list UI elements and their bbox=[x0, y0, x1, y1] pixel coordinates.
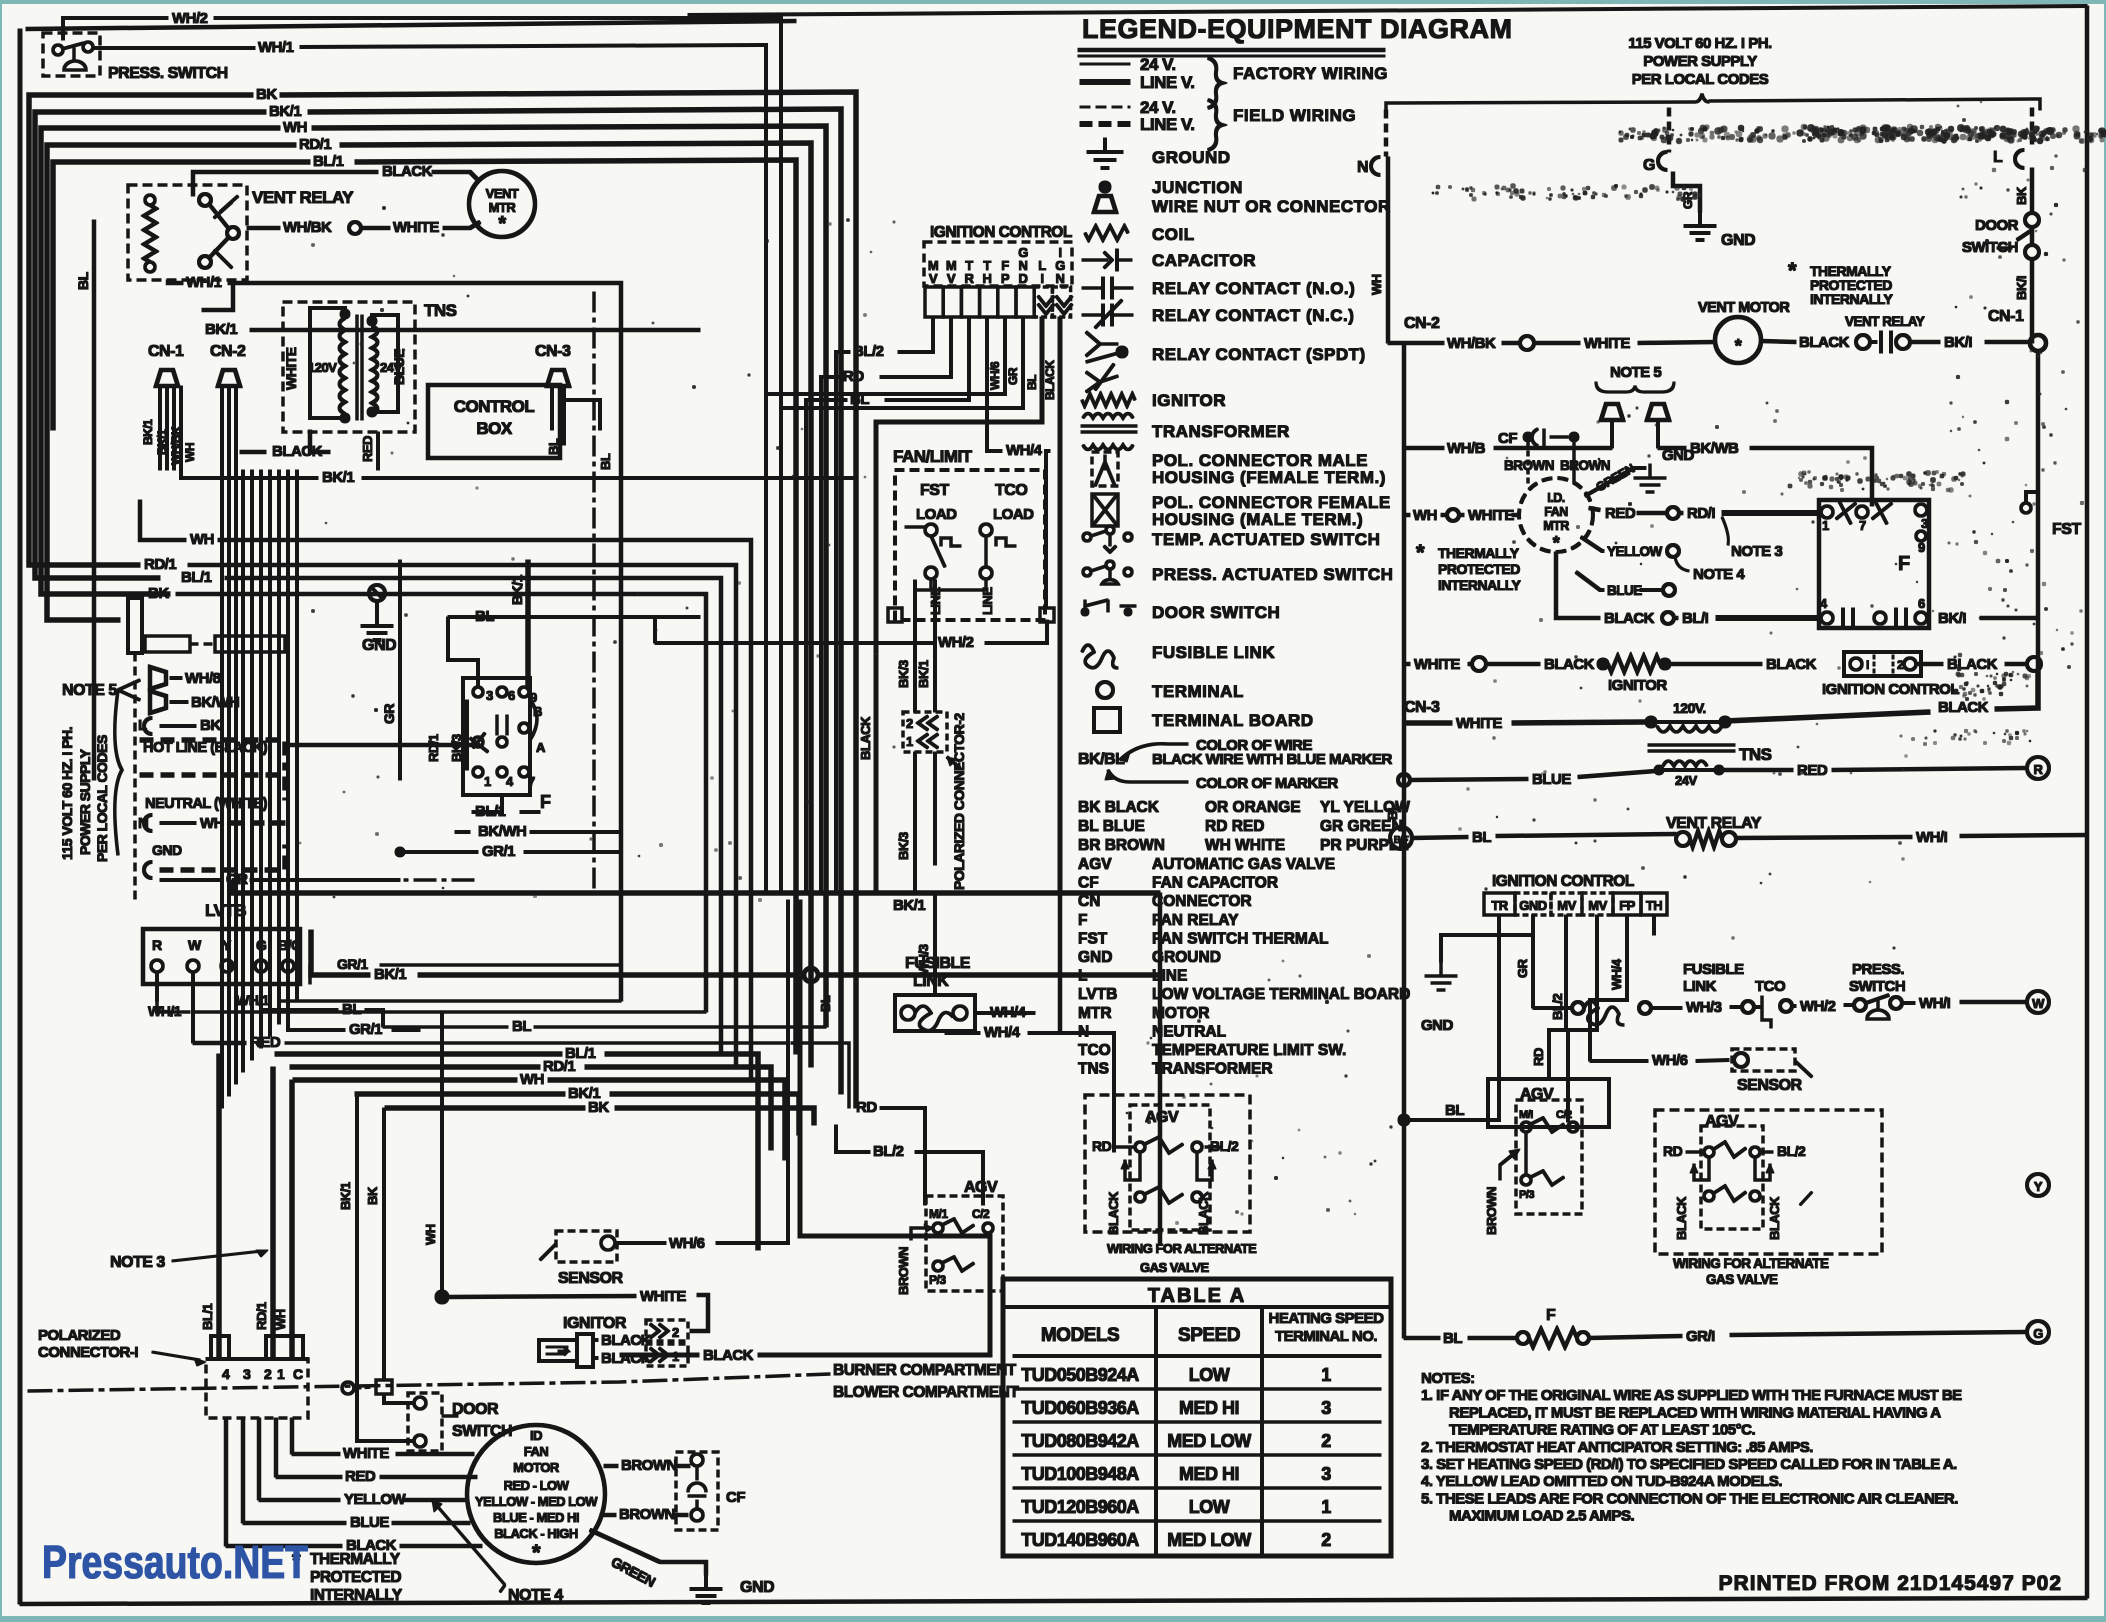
svg-text:BK/3: BK/3 bbox=[449, 734, 464, 762]
svg-text:POWER SUPPLY: POWER SUPPLY bbox=[77, 748, 93, 855]
fusible link box left bbox=[895, 995, 975, 1031]
svg-text:BR BROWN: BR BROWN bbox=[1078, 837, 1165, 854]
svg-text:FIELD WIRING: FIELD WIRING bbox=[1233, 106, 1356, 125]
teal border top bbox=[0, 0, 2106, 4]
wire mid bus vertical 2 bbox=[228, 470, 231, 1096]
wire WH/B row448 bbox=[1404, 446, 1444, 450]
wire WH/6 from sensor bbox=[615, 1242, 666, 1245]
svg-text:BK/1: BK/1 bbox=[509, 574, 525, 605]
legend 24V field dashed bbox=[1080, 106, 1130, 108]
svg-text:WH WHITE: WH WHITE bbox=[1205, 837, 1285, 854]
wire BK/1 below connector2 bbox=[934, 752, 937, 865]
svg-text:WH/3: WH/3 bbox=[916, 944, 931, 975]
wire RED to fan motor bbox=[276, 1475, 342, 1479]
svg-text:WH/1: WH/1 bbox=[236, 992, 270, 1008]
svg-text:GR/I: GR/I bbox=[1686, 1328, 1715, 1345]
gnd screw terminal bbox=[369, 585, 385, 601]
alt gas valve outer dashed box center bbox=[1085, 1095, 1250, 1232]
wire RED from TNS bbox=[377, 432, 380, 470]
legend ignitor symbol bbox=[1082, 394, 1135, 406]
wire vertical 1162 b bbox=[1161, 974, 1163, 976]
CN-3 wires down bbox=[551, 386, 554, 430]
svg-text:RD: RD bbox=[1531, 1048, 1546, 1066]
svg-text:COIL: COIL bbox=[1152, 225, 1195, 244]
LVTB terminal board box bbox=[143, 929, 300, 984]
svg-text:CF: CF bbox=[1078, 875, 1099, 892]
svg-text:LOW VOLTAGE TERMINAL BOARD: LOW VOLTAGE TERMINAL BOARD bbox=[1152, 986, 1410, 1003]
svg-text:P: P bbox=[1001, 271, 1010, 286]
wire mid bus vertical 6 bbox=[260, 470, 263, 1048]
svg-text:FUSIBLE: FUSIBLE bbox=[1683, 961, 1744, 978]
wire BLACK ignitor top bbox=[593, 1339, 598, 1342]
wire BK rotated right bbox=[2030, 168, 2034, 212]
svg-text:BL/2: BL/2 bbox=[1210, 1138, 1239, 1154]
wire left bus vertical 1 bbox=[29, 300, 140, 565]
svg-text:WHITE: WHITE bbox=[393, 219, 439, 236]
svg-text:WH/I: WH/I bbox=[1916, 829, 1948, 846]
AGV center inner dashed box bbox=[1130, 1105, 1210, 1230]
svg-text:B/T: B/T bbox=[1394, 835, 1409, 846]
svg-text:BL/1: BL/1 bbox=[200, 1304, 215, 1330]
wire WH top bundle bbox=[41, 128, 280, 340]
svg-text:MOTOR: MOTOR bbox=[513, 1460, 560, 1475]
svg-text:BK: BK bbox=[2014, 186, 2029, 205]
wire WH/2 right bbox=[1792, 1005, 1796, 1008]
svg-text:RELAY CONTACT (N.O.): RELAY CONTACT (N.O.) bbox=[1152, 279, 1355, 298]
svg-text:MODELS: MODELS bbox=[1041, 1325, 1119, 1346]
svg-text:TCO: TCO bbox=[995, 482, 1027, 499]
wire GR/I to G terminal bbox=[1589, 1336, 1682, 1338]
vent relay contact bbox=[199, 194, 211, 206]
door switch right bbox=[2025, 213, 2039, 227]
svg-text:LOAD: LOAD bbox=[916, 506, 957, 523]
TNS primary wires bbox=[310, 308, 345, 418]
sheet left border bbox=[18, 29, 22, 1604]
svg-text:MED LOW: MED LOW bbox=[1167, 1530, 1251, 1550]
wire BLACK to vent motor bbox=[193, 172, 378, 196]
svg-text:CN-3: CN-3 bbox=[535, 343, 571, 360]
wire BK/3 left of Fbox bbox=[466, 700, 469, 770]
legend coil symbol bbox=[1085, 226, 1128, 240]
legend color of wire callout bbox=[1120, 744, 1168, 760]
wire left vertical right-diagram bbox=[1402, 343, 1406, 1338]
svg-text:AGV: AGV bbox=[1520, 1086, 1554, 1103]
AGV alt right inner dashed bbox=[1701, 1126, 1763, 1229]
CN-1 junction right bbox=[2030, 335, 2046, 351]
svg-text:3. SET HEATING SPEED (RD/I) T: 3. SET HEATING SPEED (RD/I) TO SPECIFIED… bbox=[1421, 1456, 1957, 1473]
svg-text:RED: RED bbox=[250, 1034, 281, 1051]
svg-text:YELLOW - MED LOW: YELLOW - MED LOW bbox=[475, 1494, 598, 1509]
ignition control strip right bbox=[1484, 893, 1515, 915]
svg-text:GR: GR bbox=[1006, 367, 1020, 385]
wire N dashed drop bbox=[1384, 110, 1388, 156]
wire WHITE ignitor right bbox=[1404, 662, 1410, 666]
svg-text:I.D.: I.D. bbox=[1547, 491, 1564, 505]
svg-text:FACTORY WIRING: FACTORY WIRING bbox=[1233, 64, 1388, 83]
svg-text:6: 6 bbox=[508, 688, 515, 703]
ignition control top terminal cells bbox=[925, 287, 943, 317]
svg-text:IGNITION CONTROL: IGNITION CONTROL bbox=[1492, 873, 1634, 890]
svg-text:TEMPERATURE RATING OF AT LEAST: TEMPERATURE RATING OF AT LEAST 105°C. bbox=[1449, 1422, 1755, 1439]
svg-text:CN-1: CN-1 bbox=[148, 343, 184, 360]
svg-text:1: 1 bbox=[672, 1349, 679, 1364]
ignition control top dashed box bbox=[924, 242, 1072, 286]
GR wire left bbox=[160, 879, 222, 882]
svg-text:CONTROL: CONTROL bbox=[454, 397, 535, 416]
svg-text:9: 9 bbox=[1918, 540, 1925, 555]
svg-text:TNS: TNS bbox=[1739, 745, 1772, 764]
sheet bottom border bbox=[20, 1598, 2087, 1604]
CF capacitor symbol bbox=[688, 1483, 706, 1492]
legend transformer symbol bbox=[1083, 414, 1133, 419]
svg-text:RD/1: RD/1 bbox=[299, 136, 331, 153]
svg-text:PER LOCAL CODES: PER LOCAL CODES bbox=[94, 735, 110, 862]
svg-text:TEMP. ACTUATED SWITCH: TEMP. ACTUATED SWITCH bbox=[1152, 530, 1380, 549]
svg-text:W: W bbox=[2032, 996, 2045, 1011]
svg-text:WHITE: WHITE bbox=[1456, 715, 1502, 732]
svg-text:AGV: AGV bbox=[1078, 856, 1112, 873]
vent motor M3 right circle bbox=[1715, 317, 1761, 363]
wire left bus vertical 2 bbox=[35, 320, 160, 578]
note5 wirenuts right bbox=[1601, 404, 1623, 420]
ignitor resistor right bbox=[1608, 656, 1660, 672]
svg-text:MED HI: MED HI bbox=[1179, 1398, 1239, 1418]
svg-text:BLACK WIRE WITH BLUE MARKER: BLACK WIRE WITH BLUE MARKER bbox=[1152, 751, 1392, 768]
svg-text:GND: GND bbox=[1721, 232, 1755, 249]
dashed vertical left bbox=[134, 653, 137, 905]
svg-text:FAN: FAN bbox=[1544, 505, 1568, 519]
svg-text:BURNER COMPARTMENT: BURNER COMPARTMENT bbox=[833, 1362, 1017, 1379]
svg-text:TABLE A: TABLE A bbox=[1148, 1285, 1246, 1307]
svg-text:1: 1 bbox=[1321, 1497, 1331, 1517]
svg-text:MED HI: MED HI bbox=[1179, 1464, 1239, 1484]
wire mid bus vertical 8 bbox=[278, 470, 281, 1024]
svg-text:GR: GR bbox=[1515, 958, 1530, 978]
svg-text:2: 2 bbox=[906, 716, 913, 731]
divider connector bbox=[342, 1382, 354, 1394]
CN-2 wires down bbox=[221, 386, 224, 470]
wire YELLOW to fan motor bbox=[259, 1498, 340, 1502]
svg-text:H: H bbox=[983, 271, 992, 286]
svg-text:N: N bbox=[1357, 159, 1368, 176]
svg-text:BL/2: BL/2 bbox=[873, 1143, 904, 1160]
svg-text:CN: CN bbox=[1078, 893, 1100, 910]
wire WH/I to W terminal bbox=[1902, 1002, 1915, 1005]
compartment divider dash-dot upper bbox=[300, 879, 480, 882]
svg-text:TCO: TCO bbox=[1755, 978, 1786, 995]
svg-text:NOTE 5: NOTE 5 bbox=[1610, 364, 1661, 381]
wire CN3 BL bbox=[560, 400, 600, 430]
svg-text:5. THESE LEADS ARE FOR CONNEC: 5. THESE LEADS ARE FOR CONNECTION OF THE… bbox=[1421, 1490, 1958, 1507]
svg-text:IGNITOR: IGNITOR bbox=[1152, 391, 1226, 410]
wire BL vent relay right bbox=[1412, 837, 1468, 838]
svg-text:TERMINAL BOARD: TERMINAL BOARD bbox=[1152, 711, 1314, 730]
polarized connector-2 chevrons bbox=[918, 716, 938, 730]
svg-text:FAN: FAN bbox=[524, 1444, 549, 1459]
wire BLACK to fan motor bbox=[226, 1544, 342, 1548]
LVTB wires down bbox=[156, 972, 159, 1001]
F box right top contacts bbox=[1821, 506, 1833, 518]
svg-text:I: I bbox=[1040, 271, 1043, 286]
svg-text:3: 3 bbox=[486, 688, 493, 703]
wire BL/1 below Fbox bbox=[472, 795, 502, 812]
svg-text:FST: FST bbox=[920, 482, 949, 499]
svg-text:BLACK - HIGH: BLACK - HIGH bbox=[494, 1526, 578, 1541]
gnd symbol right mid bbox=[1649, 464, 1652, 478]
polarized connector-1 box bbox=[206, 1359, 308, 1418]
teal border left bbox=[0, 0, 2, 1622]
svg-text:1: 1 bbox=[484, 774, 491, 789]
wire corner bundle c bbox=[876, 317, 1042, 893]
vent relay K1 dashed box bbox=[128, 185, 247, 280]
wire BLACK ignitor bottom bbox=[593, 1357, 598, 1360]
svg-text:LINE V.: LINE V. bbox=[1140, 73, 1194, 92]
svg-text:BK/1: BK/1 bbox=[338, 1182, 353, 1210]
svg-text:Pressauto.NET: Pressauto.NET bbox=[42, 1536, 308, 1588]
svg-text:WH: WH bbox=[273, 1309, 288, 1330]
teal border right bbox=[2104, 0, 2106, 1622]
wire WH vertical to white junction bbox=[441, 1012, 444, 1297]
svg-text:WHITE: WHITE bbox=[640, 1288, 686, 1305]
N connector left bbox=[144, 815, 152, 831]
svg-text:WH/6: WH/6 bbox=[1652, 1052, 1688, 1069]
TCO switch right bbox=[1754, 1006, 1760, 1009]
svg-text:BK: BK bbox=[200, 717, 221, 734]
svg-text:AGV: AGV bbox=[964, 1179, 998, 1196]
wire BLUE to fan motor bbox=[243, 1521, 346, 1525]
svg-text:1: 1 bbox=[1321, 1365, 1331, 1385]
wire WH/3 above fusible link bbox=[934, 942, 937, 995]
wire WH/1 vent relay right bbox=[1736, 837, 1912, 838]
table A data rows bbox=[1013, 1388, 1381, 1391]
wire vertical 1160 right bbox=[1158, 893, 1162, 1244]
svg-text:WH: WH bbox=[190, 531, 214, 548]
svg-text:BL: BL bbox=[1385, 803, 1400, 820]
svg-text:WH/4: WH/4 bbox=[1609, 958, 1624, 990]
svg-text:120V: 120V bbox=[308, 360, 337, 375]
fusible link symbol right bbox=[1533, 1007, 1571, 1010]
wire WHITE to fan motor bbox=[292, 1452, 340, 1456]
svg-text:COLOR OF MARKER: COLOR OF MARKER bbox=[1196, 775, 1338, 792]
svg-text:BLACK: BLACK bbox=[272, 443, 323, 460]
svg-text:4: 4 bbox=[222, 1366, 230, 1382]
svg-text:C/2: C/2 bbox=[1556, 1109, 1572, 1121]
wire GREEN to ground bbox=[590, 1530, 660, 1562]
sensor left dashed box bbox=[556, 1231, 617, 1262]
legend pol connector female symbol bbox=[1092, 494, 1118, 526]
svg-text:1. IF ANY OF THE ORIGINAL WIR: 1. IF ANY OF THE ORIGINAL WIRE AS SUPPLI… bbox=[1421, 1387, 1962, 1404]
fan relay F box right bbox=[1819, 500, 1929, 628]
svg-text:WH/4: WH/4 bbox=[984, 1024, 1021, 1041]
svg-text:BROWN: BROWN bbox=[1560, 458, 1610, 473]
svg-text:G: G bbox=[1643, 157, 1655, 174]
B/T terminal right bbox=[1390, 827, 1412, 849]
svg-text:C: C bbox=[293, 1366, 303, 1382]
legend terminal board symbol bbox=[1094, 708, 1120, 732]
svg-text:OR ORANGE: OR ORANGE bbox=[1205, 799, 1301, 816]
svg-text:BOX: BOX bbox=[476, 419, 513, 438]
scan noise band top right bbox=[1930, 126, 1933, 129]
wire BK/3 below fan limit bbox=[914, 580, 917, 712]
svg-text:GR: GR bbox=[381, 704, 397, 724]
svg-text:G: G bbox=[256, 937, 267, 953]
legend relay NC symbol bbox=[1082, 314, 1103, 317]
wire RED RD/1 right bbox=[1589, 508, 1600, 510]
sheet right border bbox=[2085, 6, 2089, 1598]
svg-text:RELAY CONTACT (N.C.): RELAY CONTACT (N.C.) bbox=[1152, 306, 1354, 325]
legend color of marker callout bbox=[1108, 770, 1130, 782]
wire WH/1 from press switch bbox=[93, 47, 255, 50]
svg-text:3: 3 bbox=[1321, 1398, 1331, 1418]
scan noise F box top bbox=[1924, 472, 1926, 474]
svg-text:WH/6: WH/6 bbox=[988, 361, 1002, 390]
table A header row bbox=[1013, 1355, 1381, 1358]
legend 24V factory line bbox=[1080, 63, 1130, 65]
svg-text:2: 2 bbox=[1321, 1530, 1331, 1550]
wire RD/1 top bundle bbox=[47, 145, 296, 360]
svg-text:WH: WH bbox=[283, 119, 307, 136]
svg-text:WH/2: WH/2 bbox=[938, 634, 974, 651]
wire BROWN lower CF bbox=[600, 1513, 616, 1517]
svg-text:CONNECTOR-I: CONNECTOR-I bbox=[38, 1344, 138, 1361]
wire BK/1 label row 975 bbox=[311, 930, 370, 975]
svg-text:AUTOMATIC GAS VALVE: AUTOMATIC GAS VALVE bbox=[1152, 856, 1335, 873]
svg-text:N: N bbox=[138, 815, 148, 832]
svg-text:BK: BK bbox=[365, 1186, 380, 1205]
svg-text:RELAY CONTACT (SPDT): RELAY CONTACT (SPDT) bbox=[1152, 345, 1366, 364]
wire BK/1 below vent relay bbox=[202, 280, 233, 310]
svg-text:BK/1: BK/1 bbox=[893, 897, 925, 914]
svg-text:MTR: MTR bbox=[1543, 519, 1569, 533]
svg-text:REPLACED, IT MUST BE REPLACED: REPLACED, IT MUST BE REPLACED WITH WIRIN… bbox=[1449, 1404, 1941, 1421]
sheet top border right half bbox=[688, 6, 2087, 15]
legend relay SPDT symbol bbox=[1086, 332, 1100, 344]
wire FP WH/4 right bbox=[1590, 915, 1627, 1061]
wire GR rotated mid bbox=[399, 560, 402, 780]
legend wire nut symbol bbox=[1094, 196, 1116, 212]
svg-text:BLACK: BLACK bbox=[1947, 656, 1998, 673]
svg-text:N: N bbox=[1056, 271, 1065, 286]
svg-text:WH: WH bbox=[520, 1071, 544, 1088]
wire YELLOW right bbox=[1581, 537, 1604, 551]
svg-text:RD/1: RD/1 bbox=[254, 1302, 269, 1330]
svg-text:1: 1 bbox=[277, 1366, 285, 1382]
wire RED to R terminal bbox=[1723, 768, 1793, 772]
svg-text:WH/2: WH/2 bbox=[172, 10, 208, 27]
svg-text:WHITE: WHITE bbox=[1414, 656, 1460, 673]
svg-text:RED: RED bbox=[345, 1468, 376, 1485]
wire WH/2 from press switch bbox=[63, 18, 168, 40]
wire WH WHITE right bbox=[1404, 513, 1410, 517]
svg-text:Y: Y bbox=[2034, 1179, 2043, 1194]
svg-text:BK/1: BK/1 bbox=[269, 103, 301, 120]
svg-text:GAS VALVE: GAS VALVE bbox=[1140, 1260, 1210, 1275]
svg-text:BK/WH: BK/WH bbox=[191, 694, 239, 711]
wire G dashed drop bbox=[1667, 108, 1671, 152]
wire BK/1 row478 bbox=[181, 470, 318, 478]
svg-text:115 VOLT 60 HZ. I PH.: 115 VOLT 60 HZ. I PH. bbox=[59, 727, 75, 860]
wire corner bundle b bbox=[781, 317, 1023, 408]
svg-text:BLUE: BLUE bbox=[350, 1514, 389, 1531]
svg-text:BROWN: BROWN bbox=[896, 1247, 911, 1295]
legend ground symbol bbox=[1104, 138, 1107, 152]
wire BK/3 below connector2 bbox=[914, 752, 917, 893]
wire WHITE long row1297 bbox=[435, 1290, 449, 1304]
svg-text:FAN RELAY: FAN RELAY bbox=[1152, 912, 1239, 929]
svg-text:MED LOW: MED LOW bbox=[1167, 1431, 1251, 1451]
svg-text:GROUND: GROUND bbox=[1152, 949, 1221, 966]
svg-text:WH/2: WH/2 bbox=[1800, 998, 1836, 1015]
sensor right box bbox=[1732, 1049, 1795, 1071]
svg-text:DOOR: DOOR bbox=[452, 1401, 499, 1418]
svg-text:BK/WB: BK/WB bbox=[1690, 440, 1739, 457]
svg-text:INTERNALLY: INTERNALLY bbox=[310, 1587, 403, 1604]
svg-text:BL: BL bbox=[818, 995, 833, 1012]
svg-text:CN-3: CN-3 bbox=[1404, 699, 1440, 716]
svg-text:VENT: VENT bbox=[486, 186, 519, 201]
svg-text:BL: BL bbox=[598, 453, 613, 470]
wire mid bus vertical 5 bbox=[251, 470, 254, 1060]
svg-text:LOW: LOW bbox=[1189, 1497, 1230, 1517]
svg-text:P/3: P/3 bbox=[929, 1273, 946, 1287]
pol conn-1 wires above bbox=[217, 1054, 222, 1359]
svg-text:GR/1: GR/1 bbox=[349, 1021, 382, 1038]
svg-text:WHITE: WHITE bbox=[343, 1445, 389, 1462]
svg-text:4. YELLOW LEAD OMITTED ON TUD: 4. YELLOW LEAD OMITTED ON TUD-B924A MODE… bbox=[1421, 1473, 1782, 1490]
svg-text:GND: GND bbox=[152, 842, 182, 858]
svg-text:BK: BK bbox=[256, 86, 277, 103]
svg-text:TH: TH bbox=[1646, 898, 1662, 913]
svg-text:BL: BL bbox=[512, 1018, 531, 1035]
svg-text:7: 7 bbox=[528, 774, 535, 789]
legend capacitor symbol bbox=[1082, 259, 1108, 262]
power supply bracket line bbox=[1386, 102, 1695, 112]
svg-text:TUD100B948A: TUD100B948A bbox=[1021, 1464, 1139, 1484]
gnd wire and symbol bbox=[376, 601, 379, 612]
wire BK/1 right of Fbox bbox=[526, 560, 531, 688]
svg-text:BLACK: BLACK bbox=[1799, 334, 1850, 351]
svg-text:IGNITION CONTROL: IGNITION CONTROL bbox=[930, 224, 1072, 241]
wire GND right strip bbox=[1532, 915, 1535, 1008]
svg-text:MTR: MTR bbox=[1078, 1005, 1112, 1022]
polarized connector-2 box bbox=[903, 712, 947, 752]
svg-text:F: F bbox=[1546, 1307, 1556, 1324]
svg-text:F: F bbox=[1898, 553, 1910, 575]
svg-text:BROWN: BROWN bbox=[621, 1457, 677, 1474]
svg-text:DOOR: DOOR bbox=[1975, 217, 2019, 234]
svg-text:WHITE: WHITE bbox=[1584, 335, 1630, 352]
svg-text:CONNECTOR: CONNECTOR bbox=[1152, 893, 1252, 910]
svg-text:NOTE 3: NOTE 3 bbox=[110, 1254, 165, 1271]
svg-text:LINK: LINK bbox=[1683, 978, 1717, 995]
wire WH row540 bbox=[140, 500, 186, 540]
svg-text:BL/I: BL/I bbox=[1682, 610, 1709, 627]
svg-text:B/C: B/C bbox=[278, 937, 301, 953]
svg-text:BL: BL bbox=[1472, 829, 1491, 846]
svg-text:BK: BK bbox=[148, 585, 169, 602]
svg-text:GND: GND bbox=[1421, 1017, 1454, 1034]
svg-text:BLACK: BLACK bbox=[1767, 1196, 1782, 1240]
wire WH/1 below vent relay bbox=[168, 280, 183, 283]
svg-text:BK/I: BK/I bbox=[1944, 334, 1972, 351]
svg-text:CF: CF bbox=[1498, 430, 1517, 447]
svg-text:Y: Y bbox=[222, 937, 232, 953]
svg-text:2: 2 bbox=[264, 1366, 272, 1382]
svg-text:1: 1 bbox=[906, 734, 913, 749]
svg-text:LINE V.: LINE V. bbox=[1140, 115, 1194, 134]
gnd symbol fan motor bbox=[705, 1575, 708, 1589]
svg-text:GND: GND bbox=[1078, 949, 1112, 966]
